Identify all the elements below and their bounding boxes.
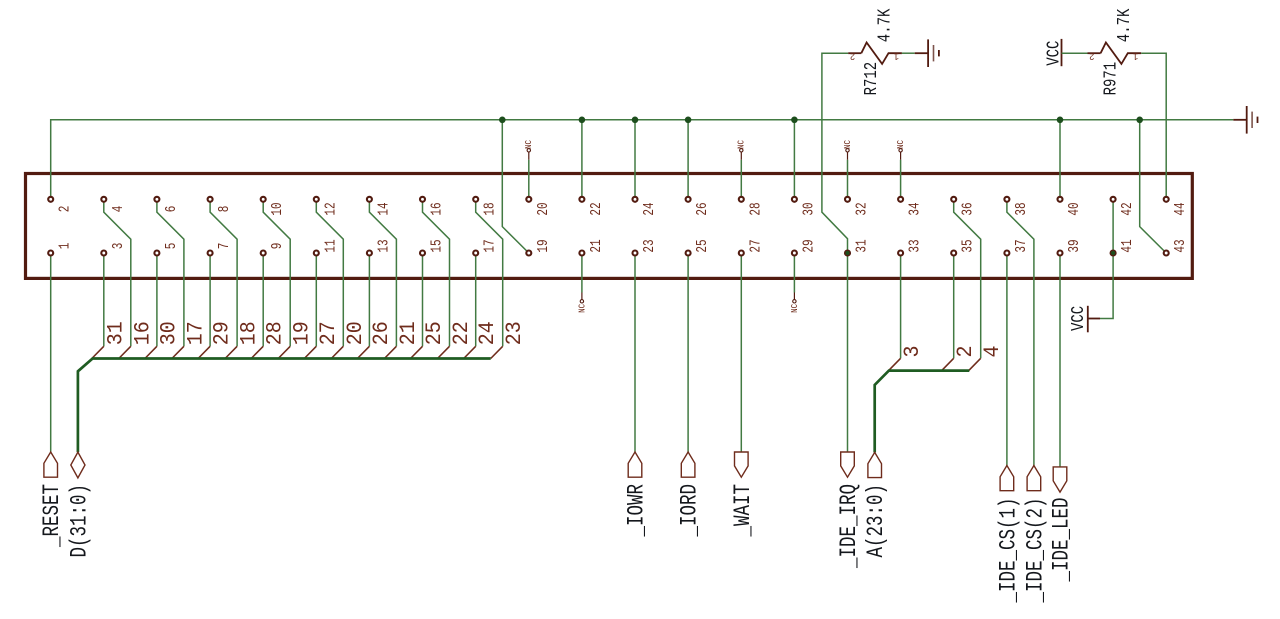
svg-text:36: 36 bbox=[959, 202, 976, 215]
wire pin 15 to D bus entry bbox=[422, 253, 424, 346]
pin 17 bbox=[473, 251, 478, 256]
svg-text:37: 37 bbox=[1012, 239, 1029, 252]
no-connect on pin 34 bbox=[900, 160, 902, 200]
wire pin 31 to _IDE_IRQ label bbox=[847, 253, 849, 452]
svg-text:28: 28 bbox=[747, 202, 764, 215]
wire pin 23 to _IOWR label bbox=[634, 253, 636, 452]
wire ground bus to pin 26 bbox=[687, 120, 689, 200]
bus entry D23 bbox=[491, 346, 503, 358]
svg-text:18: 18 bbox=[481, 202, 498, 215]
pin 7 bbox=[208, 251, 213, 256]
svg-text:15: 15 bbox=[428, 239, 445, 252]
junction ground bus / pin 30 drop bbox=[791, 117, 798, 124]
connector J1 44-pin IDE box body bbox=[26, 174, 1193, 279]
svg-text:21: 21 bbox=[587, 239, 604, 252]
svg-text:_IDE_LED: _IDE_LED bbox=[1049, 498, 1075, 583]
wire ground bus to pin 40 bbox=[1059, 120, 1061, 200]
svg-text:27: 27 bbox=[747, 239, 764, 252]
bus entry D27 bbox=[304, 346, 316, 358]
svg-text:VCC: VCC bbox=[1067, 306, 1088, 331]
svg-text:8: 8 bbox=[216, 206, 233, 213]
junction ground bus / pin 22 drop bbox=[579, 117, 586, 124]
pin 43 bbox=[1164, 251, 1169, 256]
svg-text:10: 10 bbox=[269, 202, 286, 215]
svg-text:4.7K: 4.7K bbox=[874, 8, 895, 42]
wire stub to VCC symbol bbox=[1088, 318, 1100, 320]
svg-text:_IOWR: _IOWR bbox=[624, 484, 650, 537]
pin 44 bbox=[1164, 197, 1169, 202]
pin 27 bbox=[739, 251, 744, 256]
pin 20 bbox=[526, 197, 531, 202]
svg-text:_IDE_IRQ: _IDE_IRQ bbox=[837, 484, 863, 569]
svg-text:14: 14 bbox=[375, 202, 392, 215]
wire ground bus to pin 24 bbox=[634, 120, 636, 200]
global label _WAIT arrow bbox=[735, 452, 749, 477]
bus entry D28 bbox=[251, 346, 263, 358]
svg-text:25: 25 bbox=[423, 321, 447, 345]
pin 8 bbox=[208, 197, 213, 202]
svg-text:24: 24 bbox=[640, 202, 657, 215]
bus entry D31 bbox=[92, 346, 104, 358]
junction dot on pin 41 bbox=[1111, 251, 1115, 255]
wire pin 9 to D bus entry bbox=[262, 253, 264, 346]
wire pin 14 to D bus entry bbox=[369, 199, 396, 346]
svg-text:3: 3 bbox=[109, 243, 126, 250]
pin 1 bbox=[48, 251, 53, 256]
pin 11 bbox=[314, 251, 319, 256]
svg-text:42: 42 bbox=[1119, 202, 1136, 215]
wire pin 18 to D bus entry bbox=[476, 199, 503, 346]
pin 29 bbox=[792, 251, 797, 256]
wire ground bus to pin 30 bbox=[793, 120, 795, 200]
svg-text:33: 33 bbox=[906, 239, 923, 252]
bus entry D18 bbox=[225, 346, 237, 358]
wire pin 25 to _IORD label bbox=[687, 253, 689, 452]
wire ground bus to pin 43 bbox=[1140, 120, 1167, 253]
bus entry D16 bbox=[119, 346, 131, 358]
pin 33 bbox=[898, 251, 903, 256]
wire pin 38 to _IDE_CS(2) label bbox=[1007, 199, 1034, 465]
svg-text:5: 5 bbox=[162, 243, 179, 250]
bus entry D21 bbox=[384, 346, 396, 358]
global label _RESET arrow bbox=[44, 452, 58, 477]
svg-text:20: 20 bbox=[534, 202, 551, 215]
svg-text:4.7K: 4.7K bbox=[1113, 8, 1134, 42]
svg-text:39: 39 bbox=[1065, 239, 1082, 252]
pin 40 bbox=[1058, 197, 1063, 202]
wire pin 36 to A bus entry bbox=[954, 199, 981, 358]
power VCC at pin 41 bbox=[1087, 306, 1089, 333]
wire pin 16 to D bus entry bbox=[423, 199, 450, 346]
svg-text:NC: NC bbox=[578, 304, 588, 313]
svg-text:32: 32 bbox=[853, 202, 870, 215]
global label _IDE_LED arrow bbox=[1053, 467, 1067, 492]
global label _IDE_IRQ arrow bbox=[841, 452, 855, 477]
pin 36 bbox=[951, 197, 956, 202]
pin 35 bbox=[951, 251, 956, 256]
wire pin 3 to D bus entry bbox=[103, 253, 105, 346]
global label _IDE_CS(1) arrow bbox=[1000, 466, 1014, 491]
svg-text:17: 17 bbox=[185, 321, 209, 345]
svg-text:41: 41 bbox=[1119, 239, 1136, 252]
pin 25 bbox=[686, 251, 691, 256]
bus entry D30 bbox=[145, 346, 157, 358]
bus label D(31:0) diamond bbox=[71, 452, 85, 478]
svg-text:4: 4 bbox=[109, 206, 126, 213]
svg-text:23: 23 bbox=[503, 321, 527, 345]
pin 41 bbox=[1111, 251, 1116, 256]
wire pin 5 to D bus entry bbox=[156, 253, 158, 346]
svg-text:_IDE_CS(2): _IDE_CS(2) bbox=[1023, 498, 1049, 604]
svg-text:1: 1 bbox=[1133, 50, 1139, 62]
bus entry D26 bbox=[357, 346, 369, 358]
svg-text:A(23:0): A(23:0) bbox=[864, 484, 890, 557]
wire pin 37 to _IDE_CS(1) label bbox=[1006, 253, 1008, 466]
bus D(31:0) main line bbox=[78, 359, 491, 453]
svg-text:R971: R971 bbox=[1100, 62, 1121, 96]
svg-text:38: 38 bbox=[1012, 202, 1029, 215]
junction ground bus / pin 40 drop bbox=[1057, 117, 1064, 124]
pin 26 bbox=[686, 197, 691, 202]
wire ground bus to pin 19 bbox=[502, 120, 529, 253]
wire pin 17 to D bus entry bbox=[475, 253, 477, 346]
pin 42 bbox=[1111, 197, 1116, 202]
wire pin 11 to D bus entry bbox=[315, 253, 317, 346]
svg-text:1: 1 bbox=[893, 50, 899, 62]
svg-text:25: 25 bbox=[694, 239, 711, 252]
bus entry D19 bbox=[278, 346, 290, 358]
svg-text:31: 31 bbox=[105, 321, 129, 345]
junction at pin 41 bbox=[1111, 251, 1116, 256]
svg-text:17: 17 bbox=[481, 239, 498, 252]
svg-text:_RESET: _RESET bbox=[40, 484, 66, 548]
pin 10 bbox=[261, 197, 266, 202]
svg-text:30: 30 bbox=[158, 321, 182, 345]
wire pin 35 to A bus entry bbox=[953, 253, 955, 358]
no-connect on pin 28 bbox=[740, 160, 742, 200]
wire R971 pin1 to pin 44 bbox=[1141, 53, 1166, 199]
svg-text:21: 21 bbox=[397, 321, 421, 345]
svg-text:9: 9 bbox=[269, 243, 286, 250]
wire R712 pin1 to ground bbox=[902, 52, 915, 54]
global label _IORD arrow bbox=[681, 452, 695, 477]
svg-text:13: 13 bbox=[375, 239, 392, 252]
bus label A(23:0) arrow bbox=[868, 452, 882, 477]
wire ground bus to pin 22 bbox=[581, 120, 583, 200]
bus entry A3 bbox=[889, 358, 901, 370]
pin 13 bbox=[367, 251, 372, 256]
svg-text:2: 2 bbox=[56, 206, 73, 213]
svg-text:6: 6 bbox=[162, 206, 179, 213]
svg-text:22: 22 bbox=[450, 321, 474, 345]
svg-text:12: 12 bbox=[322, 202, 339, 215]
pin 32 bbox=[845, 197, 850, 202]
svg-text:30: 30 bbox=[800, 202, 817, 215]
svg-text:19: 19 bbox=[291, 321, 315, 345]
svg-text:VCC: VCC bbox=[1043, 40, 1064, 65]
wire R712 pin2 to pin 31 bbox=[822, 53, 848, 253]
pin 21 bbox=[579, 251, 584, 256]
bus entry D22 bbox=[438, 346, 450, 358]
svg-text:29: 29 bbox=[211, 321, 235, 345]
wire pin 39 to _IDE_LED label bbox=[1059, 253, 1061, 467]
wire pin 42 to pin 41 to VCC bbox=[1100, 199, 1113, 318]
bus entry A4 bbox=[969, 358, 981, 370]
ground at right end of ground bus bbox=[1233, 119, 1246, 121]
pin 12 bbox=[314, 197, 319, 202]
resistor R971 4.7K bbox=[1088, 52, 1101, 54]
svg-text:3: 3 bbox=[901, 345, 925, 357]
junction ground bus / pin 43 drop bbox=[1136, 117, 1143, 124]
global label _IDE_CS(2) arrow bbox=[1027, 466, 1041, 491]
wire pin 1 to _RESET label bbox=[50, 253, 52, 452]
pin 9 bbox=[261, 251, 266, 256]
svg-text:1: 1 bbox=[56, 243, 73, 250]
svg-text:34: 34 bbox=[906, 202, 923, 215]
no-connect on pin 32 bbox=[847, 160, 849, 200]
resistor R712 4.7K bbox=[848, 52, 861, 54]
no-connect on pin 20 bbox=[528, 160, 530, 200]
svg-text:20: 20 bbox=[344, 321, 368, 345]
pin 30 bbox=[792, 197, 797, 202]
pin 18 bbox=[473, 197, 478, 202]
no-connect on pin 21 bbox=[581, 253, 583, 293]
svg-text:24: 24 bbox=[476, 321, 500, 345]
pin 23 bbox=[633, 251, 638, 256]
svg-text:31: 31 bbox=[853, 239, 870, 252]
wire pin 8 to D bus entry bbox=[210, 199, 237, 346]
pin 5 bbox=[154, 251, 159, 256]
svg-text:18: 18 bbox=[238, 321, 262, 345]
svg-text:D(31:0): D(31:0) bbox=[67, 484, 93, 557]
junction ground bus / pin 19 drop bbox=[499, 117, 506, 124]
wire pin 13 to D bus entry bbox=[368, 253, 370, 346]
svg-text:16: 16 bbox=[132, 321, 156, 345]
svg-text:22: 22 bbox=[587, 202, 604, 215]
wire pin 10 to D bus entry bbox=[263, 199, 290, 346]
svg-text:16: 16 bbox=[428, 202, 445, 215]
wire pin 27 to _WAIT label bbox=[740, 253, 742, 452]
pin 6 bbox=[154, 197, 159, 202]
svg-text:35: 35 bbox=[959, 239, 976, 252]
svg-text:NC: NC bbox=[737, 140, 747, 149]
svg-text:NC: NC bbox=[525, 140, 535, 149]
svg-text:26: 26 bbox=[370, 321, 394, 345]
svg-text:40: 40 bbox=[1065, 202, 1082, 215]
svg-text:NC: NC bbox=[843, 140, 853, 149]
pin 3 bbox=[101, 251, 106, 256]
svg-text:19: 19 bbox=[534, 239, 551, 252]
bus entry A2 bbox=[942, 358, 954, 370]
pin 31 bbox=[845, 251, 850, 256]
svg-text:2: 2 bbox=[850, 50, 856, 62]
global label _IOWR arrow bbox=[628, 452, 642, 477]
bus entry D17 bbox=[172, 346, 184, 358]
svg-text:NC: NC bbox=[896, 140, 906, 149]
pin 34 bbox=[898, 197, 903, 202]
svg-text:2: 2 bbox=[1089, 50, 1095, 62]
bus A(23:0) main line bbox=[875, 371, 970, 453]
pin 4 bbox=[101, 197, 106, 202]
svg-text:_WAIT: _WAIT bbox=[731, 484, 757, 537]
wire pin 33 to A bus entry bbox=[900, 253, 902, 358]
pin 24 bbox=[633, 197, 638, 202]
pin 37 bbox=[1004, 251, 1009, 256]
svg-text:26: 26 bbox=[694, 202, 711, 215]
svg-text:11: 11 bbox=[322, 239, 339, 252]
junction at pin 31 bbox=[845, 251, 850, 256]
power VCC at R971 bbox=[1061, 39, 1063, 66]
bus entry D25 bbox=[411, 346, 423, 358]
pin 16 bbox=[420, 197, 425, 202]
junction ground bus / pin 24 drop bbox=[632, 117, 639, 124]
wire pin 6 to D bus entry bbox=[157, 199, 184, 346]
bus entry D29 bbox=[198, 346, 210, 358]
pin 38 bbox=[1004, 197, 1009, 202]
bus entry D24 bbox=[464, 346, 476, 358]
pin 19 bbox=[526, 251, 531, 256]
svg-text:_IDE_CS(1): _IDE_CS(1) bbox=[996, 498, 1022, 604]
svg-text:7: 7 bbox=[216, 243, 233, 250]
svg-text:23: 23 bbox=[640, 239, 657, 252]
bus entry D20 bbox=[331, 346, 343, 358]
wire pin 7 to D bus entry bbox=[209, 253, 211, 346]
svg-text:NC: NC bbox=[790, 304, 800, 313]
ground at R712 bbox=[915, 52, 928, 54]
pin 22 bbox=[579, 197, 584, 202]
svg-text:27: 27 bbox=[317, 321, 341, 345]
pin 14 bbox=[367, 197, 372, 202]
svg-text:43: 43 bbox=[1172, 239, 1189, 252]
junction dot on pin 31 bbox=[845, 251, 849, 255]
svg-text:44: 44 bbox=[1172, 202, 1189, 215]
wire pin 12 to D bus entry bbox=[316, 199, 343, 346]
pin 39 bbox=[1058, 251, 1063, 256]
wire pin 4 to D bus entry bbox=[104, 199, 131, 346]
svg-text:28: 28 bbox=[264, 321, 288, 345]
no-connect on pin 29 bbox=[793, 253, 795, 293]
pin 15 bbox=[420, 251, 425, 256]
svg-text:R712: R712 bbox=[860, 62, 881, 96]
svg-text:29: 29 bbox=[800, 239, 817, 252]
junction ground bus / pin 26 drop bbox=[685, 117, 692, 124]
svg-text:2: 2 bbox=[954, 345, 978, 357]
svg-text:4: 4 bbox=[981, 345, 1005, 357]
wire VCC to R971 pin2 bbox=[1062, 52, 1088, 54]
svg-text:_IORD: _IORD bbox=[678, 484, 704, 537]
pin 2 bbox=[48, 197, 53, 202]
wire ground bus from pin 2 across top bbox=[51, 120, 1234, 200]
pin 28 bbox=[739, 197, 744, 202]
